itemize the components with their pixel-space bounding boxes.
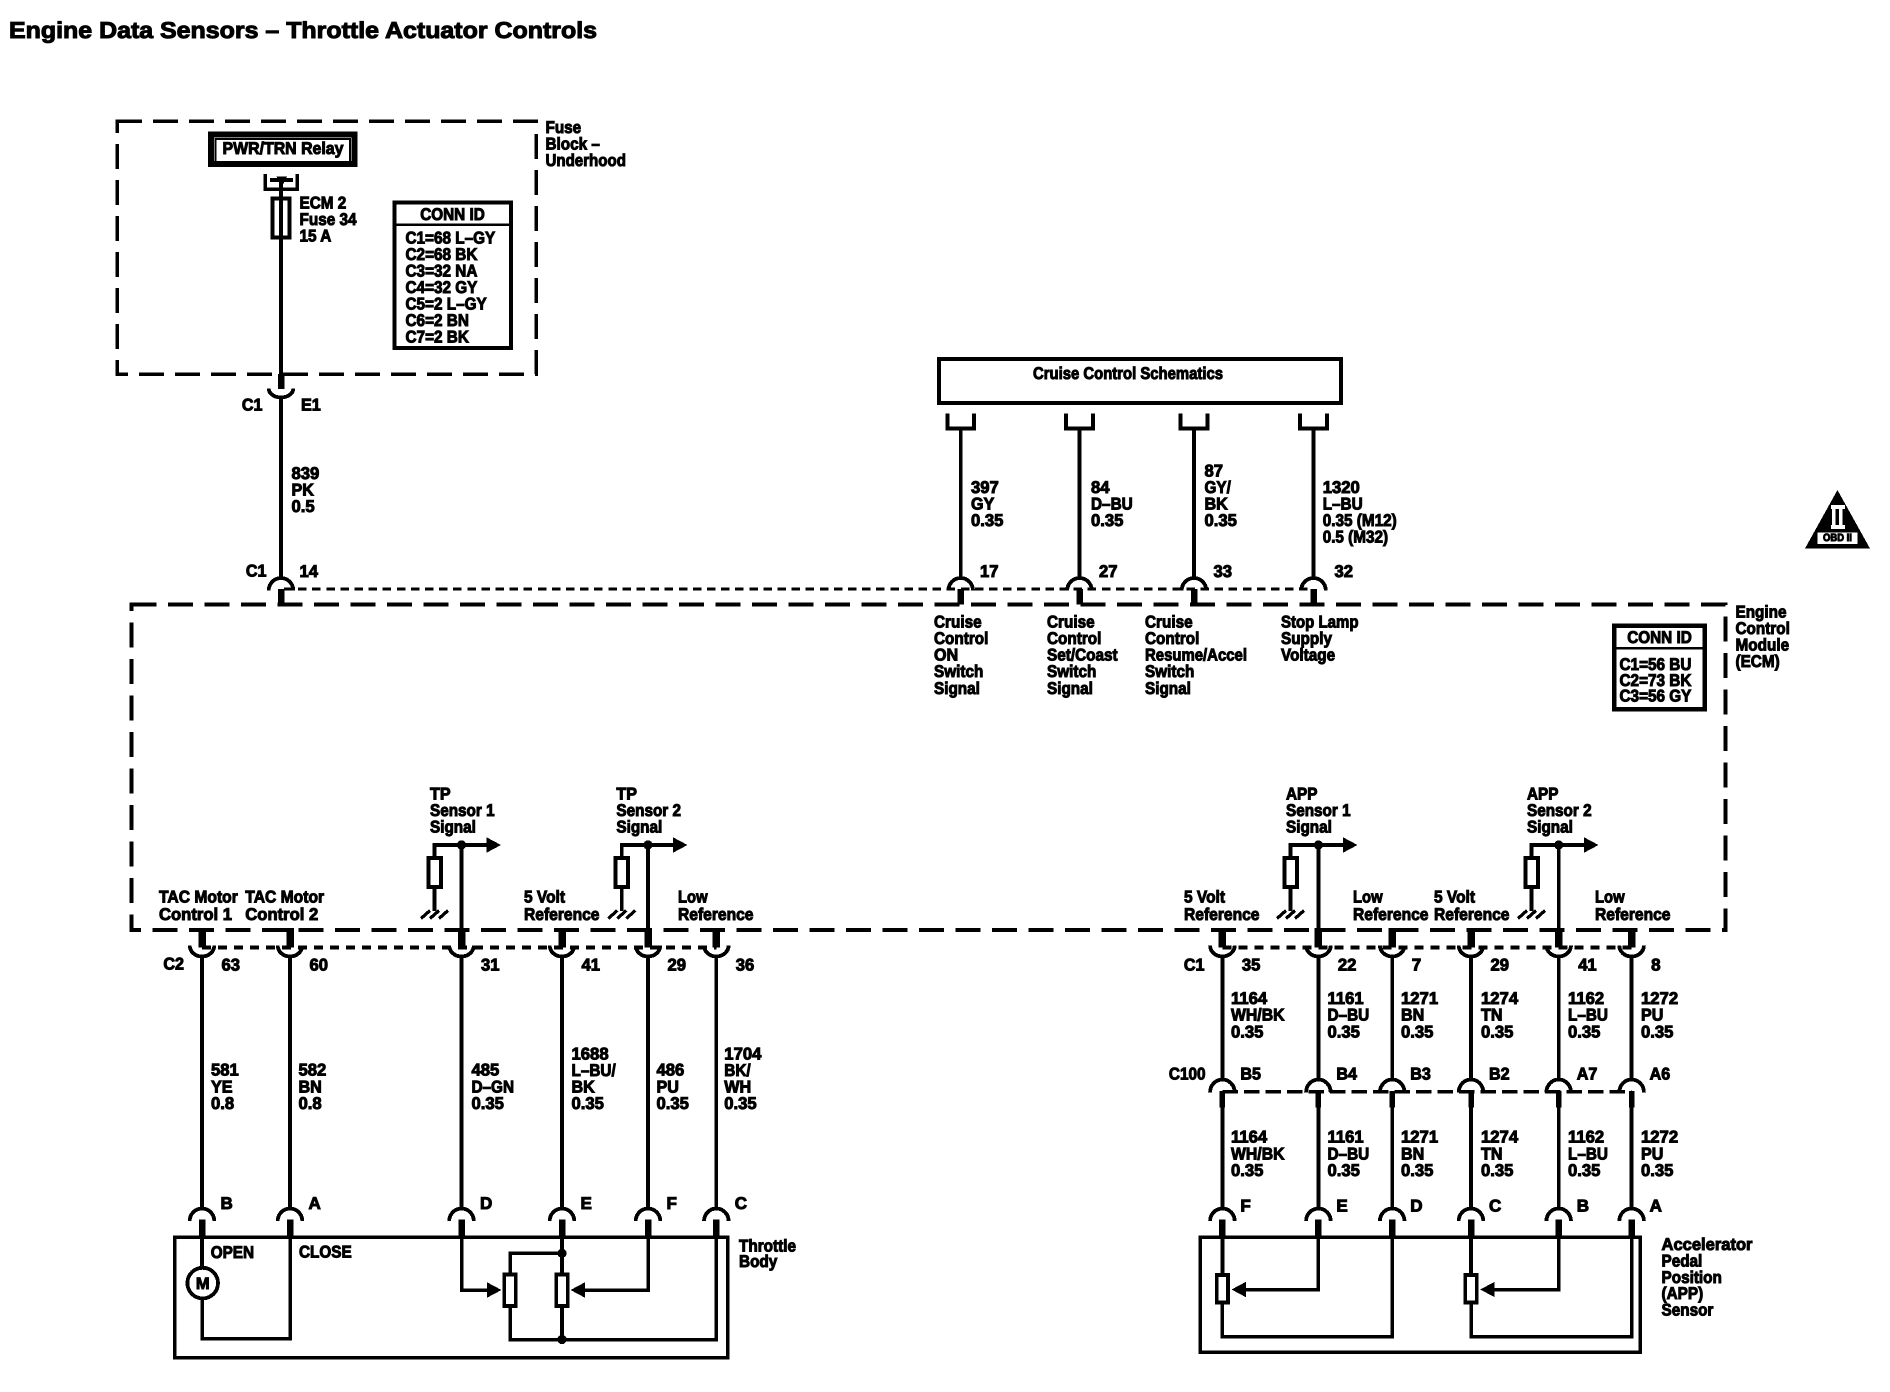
svg-text:5 Volt: 5 Volt xyxy=(524,888,565,907)
svg-text:C2: C2 xyxy=(163,955,184,974)
svg-text:Voltage: Voltage xyxy=(1281,646,1335,665)
svg-text:Underhood: Underhood xyxy=(546,151,626,170)
ECM bottom connector pin 36 at x=716.3 xyxy=(713,928,721,947)
ground (APP sensor 1 signal) xyxy=(1277,911,1286,919)
svg-text:Body: Body xyxy=(739,1252,778,1271)
svg-text:33: 33 xyxy=(1214,562,1233,581)
TP sensor 2 signal junction dot xyxy=(643,840,652,849)
throttle pot resistor 1 xyxy=(504,1274,515,1306)
svg-text:Reference: Reference xyxy=(524,905,600,924)
ground (TP sensor 2 signal) xyxy=(608,911,617,919)
svg-text:Signal: Signal xyxy=(1286,818,1332,837)
wire (x=1318.4) C100 to APP sensor xyxy=(1317,1106,1321,1211)
TP sensor 2 signal signal wire to pin xyxy=(646,845,650,930)
TP sensor 2 signal arrow line xyxy=(622,843,675,847)
relay contact symbol K1 xyxy=(265,174,297,189)
cruise connector bracket 3 xyxy=(1181,414,1208,429)
ECM bottom connector pin 7 at x=1392.2 xyxy=(1388,928,1396,947)
fuse ECM 2 Fuse 34 15A xyxy=(273,199,290,238)
svg-text:27: 27 xyxy=(1099,562,1118,581)
svg-text:0.35: 0.35 xyxy=(1481,1161,1513,1180)
resistor (TP sensor 2 signal) xyxy=(616,858,629,887)
wire E (x=562) ECM to throttle body xyxy=(560,957,564,1211)
ECM bottom connector pin 60 at x=290 xyxy=(286,928,294,947)
wire (x=1558.7) C100 to APP sensor xyxy=(1557,1106,1561,1211)
svg-text:0.35: 0.35 xyxy=(1641,1022,1673,1041)
APP sensor 1 signal junction dot xyxy=(1314,840,1323,849)
APP sensor 2 signal signal wire to pin xyxy=(1557,845,1561,930)
svg-text:C1: C1 xyxy=(242,395,263,414)
APP pot 1 bottom rail to D xyxy=(1222,1237,1392,1337)
svg-text:Reference: Reference xyxy=(1595,905,1671,924)
wire (x=1471) ECM to C100 xyxy=(1469,957,1473,1082)
svg-text:B3: B3 xyxy=(1410,1065,1431,1084)
wire motor to close loop xyxy=(202,1237,290,1338)
ECM bottom connector pin 29 at x=648 xyxy=(644,928,652,947)
svg-text:15 A: 15 A xyxy=(300,227,332,246)
resistor (TP sensor 1 signal) xyxy=(428,858,441,887)
svg-text:Cruise Control Schematics: Cruise Control Schematics xyxy=(1033,364,1223,383)
svg-text:TAC Motor: TAC Motor xyxy=(159,888,238,907)
wire F to APP pot 1 xyxy=(1221,1237,1225,1274)
APP pot resistor 2 xyxy=(1465,1275,1476,1303)
TP sensor 1 signal junction dot xyxy=(457,840,466,849)
wire 839 PK 0.5 xyxy=(279,398,283,579)
connector E into APP sensor xyxy=(1306,1209,1331,1221)
C100 connector B3 xyxy=(1380,1080,1405,1093)
throttle pot resistor 2 xyxy=(556,1274,567,1306)
APP pot 2 bottom rail to A xyxy=(1471,1237,1632,1337)
svg-text:M: M xyxy=(196,1275,210,1293)
CONN ID table (fuse block) xyxy=(395,203,512,349)
wire D into throttle pot wiper xyxy=(462,1237,488,1290)
ECM bottom connector pin 22 at x=1318.4 xyxy=(1315,928,1323,947)
connector F into APP sensor xyxy=(1210,1209,1235,1221)
svg-text:0.35: 0.35 xyxy=(1401,1022,1433,1041)
connector C into APP sensor xyxy=(1459,1209,1484,1222)
wire (x=1318.4) ECM to C100 xyxy=(1317,957,1321,1082)
fuse block - underhood dashed box xyxy=(117,121,536,374)
connector pin 14 into ECM xyxy=(269,578,294,590)
svg-text:32: 32 xyxy=(1335,562,1354,581)
wire C (x=716.3) ECM to throttle body xyxy=(714,957,718,1211)
C100 connector A6 xyxy=(1619,1080,1644,1093)
svg-text:D: D xyxy=(1410,1197,1422,1216)
svg-text:A: A xyxy=(309,1194,321,1213)
cruise wire 2 xyxy=(1078,429,1082,579)
svg-text:Signal: Signal xyxy=(934,679,980,698)
svg-text:5 Volt: 5 Volt xyxy=(1184,888,1225,907)
svg-text:0.35: 0.35 xyxy=(1091,511,1123,530)
connector arc pin into ECM (cruise 3) xyxy=(1182,578,1207,591)
wire (x=1222.4) C100 to APP sensor xyxy=(1221,1106,1225,1211)
svg-text:0.35: 0.35 xyxy=(724,1094,756,1113)
svg-text:CONN ID: CONN ID xyxy=(420,205,485,224)
APP pot resistor 1 xyxy=(1217,1275,1228,1303)
connector A into throttle body xyxy=(278,1209,303,1221)
connector C1/E1 (fuse block exit) xyxy=(278,374,285,389)
wire (x=1471) C100 to APP sensor xyxy=(1469,1106,1473,1211)
APP sensor box xyxy=(1200,1237,1640,1352)
svg-text:PWR/TRN Relay: PWR/TRN Relay xyxy=(223,139,344,158)
ECM bottom connector pin 8 at x=1631.6 xyxy=(1628,928,1636,947)
svg-text:0.35: 0.35 xyxy=(1231,1022,1263,1041)
svg-text:5 Volt: 5 Volt xyxy=(1434,888,1475,907)
cruise wire 1 xyxy=(959,429,963,579)
svg-text:29: 29 xyxy=(668,956,687,975)
TP sensor 1 signal arrow line xyxy=(435,843,489,847)
svg-text:0.35: 0.35 xyxy=(1231,1161,1263,1180)
cruise connector bracket 2 xyxy=(1066,414,1093,429)
C100 connector B2 xyxy=(1459,1080,1484,1093)
svg-text:0.35: 0.35 xyxy=(1328,1161,1360,1180)
wire D (x=461.5) ECM to throttle body xyxy=(460,957,464,1211)
wire F into throttle pot 2 wiper xyxy=(583,1237,648,1290)
svg-text:B5: B5 xyxy=(1240,1065,1261,1084)
TP sensor 1 signal branch wire xyxy=(433,843,437,857)
svg-text:17: 17 xyxy=(980,562,999,581)
svg-text:C1: C1 xyxy=(246,561,267,580)
svg-text:Signal: Signal xyxy=(1047,679,1093,698)
cruise control schematics box xyxy=(939,359,1341,403)
svg-text:B: B xyxy=(1577,1197,1589,1216)
svg-text:0.35: 0.35 xyxy=(1481,1022,1513,1041)
C100 connector A7 xyxy=(1546,1080,1571,1093)
cruise connector bracket 1 xyxy=(947,414,974,429)
svg-text:7: 7 xyxy=(1412,956,1421,975)
svg-text:8: 8 xyxy=(1651,956,1660,975)
svg-text:0.35: 0.35 xyxy=(1641,1161,1673,1180)
ground (TP sensor 1 signal) xyxy=(421,911,430,919)
ground (APP sensor 2 signal) xyxy=(1518,911,1527,919)
svg-text:0.5 (M32): 0.5 (M32) xyxy=(1323,528,1388,547)
TP sensor 2 signal branch wire xyxy=(620,843,624,857)
svg-text:B: B xyxy=(221,1194,233,1213)
svg-text:0.8: 0.8 xyxy=(211,1094,234,1113)
svg-text:OBD II: OBD II xyxy=(1823,532,1852,544)
TP sensor 1 signal signal wire to pin xyxy=(460,845,464,930)
connector D into APP sensor xyxy=(1380,1209,1405,1222)
svg-text:C7=2 BK: C7=2 BK xyxy=(406,327,470,346)
svg-text:14: 14 xyxy=(300,562,319,581)
wire (x=1631.6) C100 to APP sensor xyxy=(1630,1106,1634,1211)
ECM bottom connector pin 63 at x=202 xyxy=(198,928,206,947)
svg-text:0.8: 0.8 xyxy=(299,1094,322,1113)
wire E into APP pot 1 wiper xyxy=(1244,1237,1318,1289)
APP sensor 2 signal junction dot xyxy=(1554,840,1563,849)
C1 dotted connector line (right) xyxy=(1222,946,1631,950)
svg-text:0.35: 0.35 xyxy=(1568,1022,1600,1041)
wire B into APP pot 2 wiper xyxy=(1493,1237,1559,1289)
TP sensor 1 signal resistor-to-ground wire xyxy=(433,888,437,911)
connector E into throttle body xyxy=(550,1209,575,1222)
svg-text:60: 60 xyxy=(310,956,329,975)
svg-text:Low: Low xyxy=(1353,888,1383,907)
svg-text:0.35: 0.35 xyxy=(1205,511,1237,530)
TP sensor 2 signal resistor-to-ground wire xyxy=(620,888,624,911)
svg-text:Reference: Reference xyxy=(678,905,754,924)
wire B (x=202) ECM to throttle body xyxy=(200,957,204,1211)
APP sensor 2 signal resistor-to-ground wire xyxy=(1530,888,1534,911)
APP sensor 1 signal signal wire to pin xyxy=(1317,845,1321,930)
svg-text:E: E xyxy=(1336,1197,1347,1216)
throttle body box xyxy=(175,1237,728,1357)
APP sensor 1 signal resistor-to-ground wire xyxy=(1289,888,1293,911)
cruise connector bracket 4 xyxy=(1300,414,1327,429)
svg-text:(ECM): (ECM) xyxy=(1736,652,1780,671)
wire A (x=290) ECM to throttle body xyxy=(288,957,292,1211)
C2 dotted connector line (left) xyxy=(202,946,716,950)
wire from relay to fuse-block bottom xyxy=(279,180,283,374)
motor M circle xyxy=(187,1268,218,1299)
svg-text:Reference: Reference xyxy=(1353,905,1429,924)
C100 connector B4 xyxy=(1306,1080,1331,1093)
svg-text:C: C xyxy=(1489,1197,1501,1216)
svg-text:Reference: Reference xyxy=(1184,905,1260,924)
svg-text:0.35: 0.35 xyxy=(971,511,1003,530)
connector arc pin into ECM (cruise 1) xyxy=(948,578,973,591)
APP sensor 2 signal arrow line xyxy=(1532,843,1586,847)
svg-text:35: 35 xyxy=(1242,956,1261,975)
ECM bottom connector pin 35 at x=1222.4 xyxy=(1219,928,1227,947)
connector B into throttle body xyxy=(190,1209,215,1222)
wire (x=1392.2) ECM to C100 xyxy=(1390,957,1394,1082)
svg-text:A: A xyxy=(1650,1197,1662,1216)
resistor (APP sensor 1 signal) xyxy=(1284,858,1297,887)
svg-text:F: F xyxy=(1240,1197,1250,1216)
wire (x=1222.4) ECM to C100 xyxy=(1221,957,1225,1082)
svg-text:22: 22 xyxy=(1338,956,1357,975)
svg-text:41: 41 xyxy=(582,956,601,975)
svg-text:CLOSE: CLOSE xyxy=(299,1243,352,1262)
ECM dashed box xyxy=(132,605,1726,931)
svg-text:B2: B2 xyxy=(1489,1065,1510,1084)
C1 dotted connector line (ECM top) xyxy=(284,587,1314,590)
svg-text:Signal: Signal xyxy=(1527,818,1573,837)
CONN ID table (ECM) xyxy=(1614,626,1705,710)
wire C to APP pot 2 xyxy=(1469,1237,1473,1274)
wire B to motor xyxy=(200,1237,204,1267)
svg-text:D: D xyxy=(480,1194,492,1213)
svg-text:C100: C100 xyxy=(1169,1065,1206,1084)
C100 connector B5 xyxy=(1210,1080,1235,1093)
svg-text:Control 1: Control 1 xyxy=(159,905,232,924)
svg-text:CONN ID: CONN ID xyxy=(1627,628,1692,647)
svg-text:29: 29 xyxy=(1491,956,1510,975)
svg-text:A6: A6 xyxy=(1650,1065,1671,1084)
ECM bottom connector pin 29 at x=1471 xyxy=(1467,928,1475,947)
svg-text:Reference: Reference xyxy=(1434,905,1510,924)
connector arc pin into ECM (cruise 2) xyxy=(1067,578,1092,591)
connector arc pin into ECM (cruise 4) xyxy=(1301,578,1326,591)
svg-text:36: 36 xyxy=(736,956,755,975)
svg-text:0.35: 0.35 xyxy=(1568,1161,1600,1180)
svg-text:E: E xyxy=(581,1194,592,1213)
ECM bottom connector pin 31 at x=461.5 xyxy=(458,928,466,947)
svg-text:31: 31 xyxy=(481,956,500,975)
connector F into throttle body xyxy=(636,1209,661,1221)
cruise wire 4 xyxy=(1312,429,1316,579)
svg-text:0.35: 0.35 xyxy=(657,1094,689,1113)
svg-text:Signal: Signal xyxy=(616,818,662,837)
svg-text:Sensor: Sensor xyxy=(1662,1300,1714,1319)
svg-text:0.35: 0.35 xyxy=(472,1094,504,1113)
wire (x=1558.7) ECM to C100 xyxy=(1557,957,1561,1082)
svg-text:0.35: 0.35 xyxy=(1401,1161,1433,1180)
OBD II triangle symbol xyxy=(1805,490,1870,549)
connector A into APP sensor xyxy=(1619,1209,1644,1222)
svg-text:C1: C1 xyxy=(1184,956,1205,975)
wire (x=1392.2) C100 to APP sensor xyxy=(1390,1106,1394,1211)
svg-text:C3=56 GY: C3=56 GY xyxy=(1620,687,1692,706)
APP sensor 1 signal arrow line xyxy=(1291,843,1345,847)
cruise wire 3 xyxy=(1192,429,1196,579)
APP sensor 1 signal branch wire xyxy=(1289,843,1293,857)
throttle pot bottom rail to C xyxy=(510,1237,716,1339)
APP sensor 2 signal branch wire xyxy=(1530,843,1534,857)
svg-text:0.5: 0.5 xyxy=(292,497,315,516)
svg-text:B4: B4 xyxy=(1336,1065,1357,1084)
relay PWR/TRN box xyxy=(211,135,355,165)
wire F (x=648) ECM to throttle body xyxy=(646,957,650,1211)
ECM bottom connector pin 41 at x=1558.7 xyxy=(1555,928,1563,947)
wire (x=1631.6) ECM to C100 xyxy=(1630,957,1634,1082)
svg-text:A7: A7 xyxy=(1577,1065,1598,1084)
svg-text:63: 63 xyxy=(222,956,241,975)
connector C into throttle body xyxy=(704,1209,729,1221)
resistor (APP sensor 2 signal) xyxy=(1525,858,1538,887)
connector B into APP sensor xyxy=(1546,1209,1571,1222)
svg-text:Low: Low xyxy=(1595,888,1625,907)
ECM bottom connector pin 41 at x=562 xyxy=(558,928,566,947)
svg-text:Engine Data Sensors – Throttle: Engine Data Sensors – Throttle Actuator … xyxy=(9,17,597,43)
svg-text:OPEN: OPEN xyxy=(211,1243,254,1262)
svg-text:0.35: 0.35 xyxy=(572,1094,604,1113)
svg-text:E1: E1 xyxy=(301,395,321,414)
C100 dashed line xyxy=(1222,1090,1631,1094)
wire E to pot tops xyxy=(560,1237,564,1274)
svg-text:41: 41 xyxy=(1578,956,1597,975)
svg-text:Control 2: Control 2 xyxy=(245,905,318,924)
connector D into throttle body xyxy=(449,1209,474,1221)
svg-text:Low: Low xyxy=(678,888,708,907)
svg-text:F: F xyxy=(667,1194,677,1213)
svg-text:Signal: Signal xyxy=(1145,679,1191,698)
svg-text:TAC Motor: TAC Motor xyxy=(245,888,324,907)
svg-text:C: C xyxy=(735,1194,747,1213)
svg-text:0.35: 0.35 xyxy=(1328,1022,1360,1041)
svg-text:Signal: Signal xyxy=(430,818,476,837)
